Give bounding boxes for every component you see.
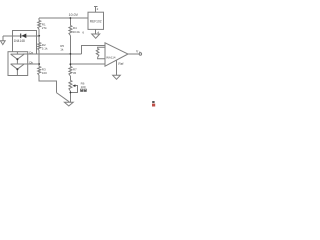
module box photodiode sensor [8,52,28,76]
ground left [0,41,5,45]
svg-text:45: 45 [73,71,77,75]
wire R1 column top [38,18,40,21]
wire Da node to R5 [69,64,71,66]
wire left ground stem [2,36,4,41]
wire REF102 ground pin [95,29,97,34]
svg-text:Ref: Ref [118,62,123,66]
wire diagonal to ground [56,93,69,102]
label zero-adjust [80,89,87,92]
svg-text:5.1k: 5.1k [42,47,48,51]
resistor R4 [69,26,72,36]
wire R3 bottom path to ground [39,76,56,93]
potentiometer R6 [69,81,72,92]
junction node diode/R1R2 [38,35,40,37]
junction node plus-input/R5 [70,63,72,65]
ground bottom middle [64,102,73,106]
resistor R1 [38,21,41,30]
wire Da jog up to minus input [82,45,105,54]
wire Da [23,53,82,55]
svg-text:27k: 27k [42,26,47,30]
ground REF102 pin4 [92,34,100,38]
IC box REF102 U1 [88,12,104,29]
svg-text:1N4148: 1N4148 [14,39,25,43]
junction node D1 anode [16,58,18,60]
junction node rail/R4 [70,17,72,19]
output terminal circle [139,53,141,55]
wire op-amp output [128,53,139,55]
svg-text:100: 100 [81,85,86,89]
svg-text:10.0V: 10.0V [69,13,79,17]
svg-text:20.0k: 20.0k [73,30,81,34]
op-amp RG pins and gain resistor RG [98,47,105,48]
svg-text:1k: 1k [60,47,64,51]
wire Db [23,63,39,65]
wire REF102 top terminal bar [94,5,98,7]
junction node pot bottom [70,92,72,94]
diode D3 1N4148 body [22,34,27,39]
wire R5 to pot [69,76,71,81]
wire R4 column top [69,18,71,26]
svg-text:Da: Da [29,50,33,54]
photodiode D2 [11,64,25,76]
pot wiper arrow [72,84,75,87]
ground op-amp ref [113,75,121,79]
junction node D2 anode [16,68,18,70]
wire diode segment [3,35,39,37]
resistor R2 [38,43,41,51]
wire plus input [70,63,105,65]
wire REF102 top pin [95,6,97,12]
junction node Da/R4 [70,53,72,55]
junction node Db/R2R3 [38,63,40,65]
op-amp U2 INA114 triangle [105,43,128,66]
wire R4 bottom to Da node [69,36,71,65]
svg-text:Db: Db [29,60,33,64]
svg-text:REF102: REF102 [90,19,102,23]
wire pot column to ground [69,91,71,102]
diode D3 cathode bar [20,34,22,39]
svg-text:100: 100 [42,71,47,75]
wire pot wiper loop [70,86,77,93]
svg-text:INA114: INA114 [106,56,116,60]
wire +V rail [39,17,88,19]
photodiode D1 [11,52,25,64]
wire R1-R2 link [38,30,40,43]
wire R2 to Db node [38,51,40,65]
watermark logo mark [152,101,154,103]
resistor R3 [38,67,41,76]
wire op-amp ref pin [116,60,118,75]
wire diode loop [12,31,36,54]
wire Db node to R3 [38,64,40,67]
resistor R7 [69,67,72,77]
